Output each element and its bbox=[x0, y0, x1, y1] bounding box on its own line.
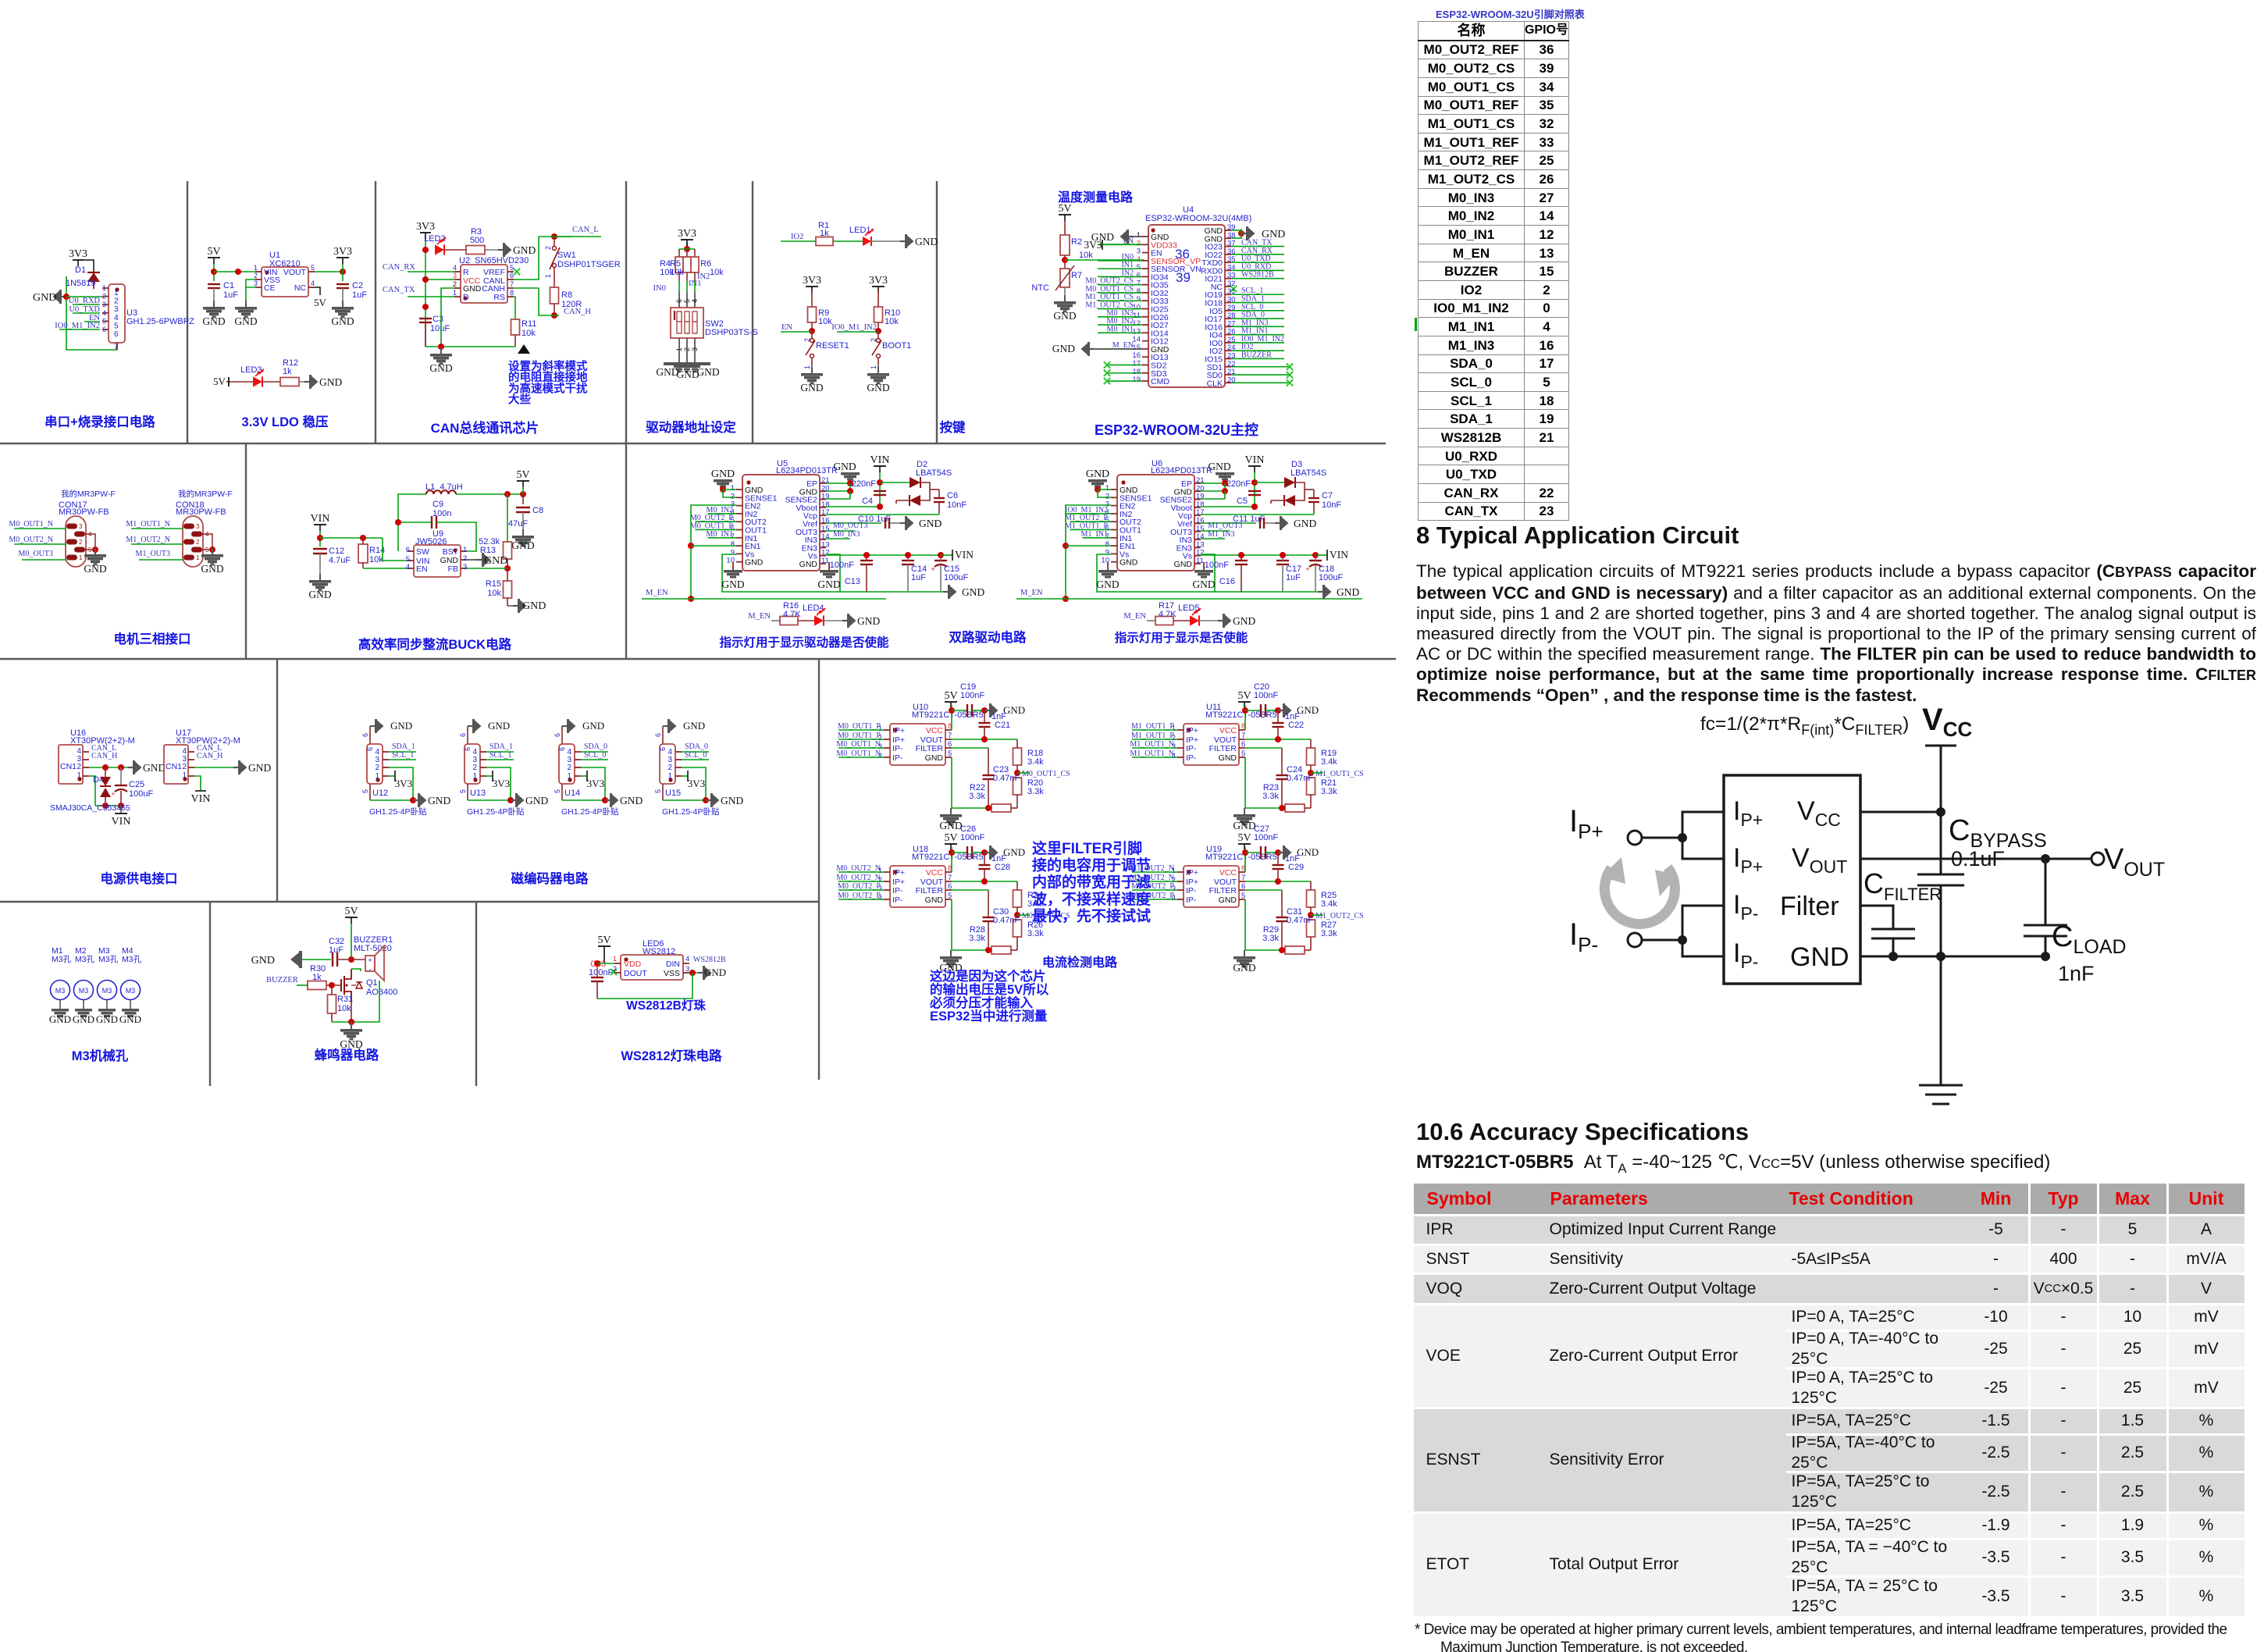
svg-text:GND: GND bbox=[73, 1013, 94, 1025]
svg-text:GND: GND bbox=[1219, 895, 1237, 905]
svg-text:NTC: NTC bbox=[1031, 283, 1049, 293]
Vs loop bbox=[722, 554, 840, 592]
ground bbox=[1241, 233, 1247, 234]
svg-text:GND: GND bbox=[704, 967, 726, 978]
svg-text:1: 1 bbox=[675, 347, 683, 351]
ground bbox=[342, 301, 344, 307]
power 5V bbox=[598, 945, 610, 947]
capacitor C2 1uF bbox=[342, 272, 344, 281]
svg-text:1: 1 bbox=[79, 554, 83, 561]
capacitor C23 0.47nF bbox=[952, 747, 988, 749]
svg-text:36: 36 bbox=[1175, 247, 1190, 262]
svg-text:3.4k: 3.4k bbox=[1027, 757, 1044, 767]
pin2 wire bbox=[486, 767, 511, 800]
svg-text:M3: M3 bbox=[126, 987, 136, 995]
bottom gnd bbox=[561, 784, 563, 800]
svg-text:接的电容用于调节: 接的电容用于调节 bbox=[1032, 856, 1151, 874]
capacitor C17 1uF bbox=[1276, 560, 1289, 561]
svg-text:VDD: VDD bbox=[624, 960, 642, 969]
svg-text:C22: C22 bbox=[1288, 721, 1304, 730]
resistors R4 R5 R6 bbox=[684, 246, 690, 252]
svg-text:3.3k: 3.3k bbox=[1027, 929, 1044, 938]
svg-text:C29: C29 bbox=[1288, 863, 1304, 872]
svg-text:DIN: DIN bbox=[666, 960, 680, 969]
svg-text:2: 2 bbox=[567, 764, 571, 772]
svg-text:220nF: 220nF bbox=[852, 479, 876, 489]
svg-text:0.47nF: 0.47nF bbox=[993, 916, 1020, 925]
bottom wires bbox=[951, 899, 952, 950]
svg-text:3: 3 bbox=[79, 523, 83, 530]
EN wires bbox=[1066, 505, 1111, 599]
svg-text:驱动器地址设定: 驱动器地址设定 bbox=[646, 419, 736, 435]
capacitor C3 10uF bbox=[422, 304, 429, 310]
EN wires bbox=[691, 505, 736, 599]
svg-text:R15: R15 bbox=[486, 579, 501, 589]
svg-text:GH1.25-4P卧贴: GH1.25-4P卧贴 bbox=[662, 806, 720, 817]
svg-text:4.7K: 4.7K bbox=[1159, 610, 1176, 619]
svg-text:GH1.25-4P卧贴: GH1.25-4P卧贴 bbox=[561, 806, 619, 817]
svg-text:EN: EN bbox=[781, 323, 792, 332]
svg-text:1: 1 bbox=[254, 264, 258, 272]
power 5V bbox=[1238, 701, 1251, 703]
svg-text:GND: GND bbox=[745, 558, 764, 568]
svg-text:3V3: 3V3 bbox=[587, 778, 604, 789]
svg-text:3.3k: 3.3k bbox=[1027, 787, 1044, 796]
svg-text:IO0_M1_IN2: IO0_M1_IN2 bbox=[831, 323, 877, 332]
svg-text:M_EN: M_EN bbox=[1123, 612, 1146, 621]
bottom wires bbox=[1244, 899, 1246, 950]
svg-text:3.3k: 3.3k bbox=[1321, 787, 1337, 796]
svg-text:GND: GND bbox=[1233, 820, 1255, 831]
wire VSS loop bbox=[246, 279, 255, 287]
svg-text:VCC: VCC bbox=[1219, 726, 1237, 735]
resistor R18 3.4k bbox=[1013, 748, 1022, 765]
svg-text:GND: GND bbox=[251, 955, 275, 967]
capacitor C32 bbox=[332, 952, 333, 967]
capacitor C24 0.47nF bbox=[1245, 747, 1282, 749]
svg-text:6: 6 bbox=[948, 740, 952, 749]
VOUT wire bbox=[952, 881, 1017, 882]
ground bbox=[1089, 348, 1095, 350]
svg-text:5: 5 bbox=[102, 317, 106, 325]
ground bbox=[1278, 852, 1283, 853]
svg-text:GND: GND bbox=[1790, 942, 1849, 972]
svg-text:5: 5 bbox=[683, 299, 691, 303]
ground x3 bbox=[678, 338, 680, 362]
svg-text:2: 2 bbox=[114, 297, 119, 306]
svg-text:GND: GND bbox=[525, 795, 548, 806]
wire bbox=[66, 276, 117, 350]
svg-text:GND: GND bbox=[1174, 560, 1193, 569]
svg-text:GND: GND bbox=[1192, 579, 1215, 590]
green tick bbox=[1415, 318, 1417, 331]
gnd wire bbox=[89, 767, 128, 768]
svg-text:4: 4 bbox=[406, 563, 410, 571]
svg-text:C25: C25 bbox=[129, 780, 144, 789]
svg-text:5V: 5V bbox=[944, 690, 957, 702]
ground bbox=[984, 852, 990, 853]
svg-text:CFILTER: CFILTER bbox=[1864, 867, 1942, 904]
svg-text:2: 2 bbox=[196, 539, 200, 546]
svg-text:MLT-5020: MLT-5020 bbox=[354, 944, 392, 953]
svg-text:ESP32-WROOM-32U(4MB): ESP32-WROOM-32U(4MB) bbox=[1145, 214, 1251, 223]
svg-text:1: 1 bbox=[453, 289, 457, 297]
svg-text:FILTER: FILTER bbox=[1209, 744, 1237, 753]
svg-text:6: 6 bbox=[366, 747, 374, 751]
bottom gnd bbox=[467, 784, 468, 800]
power 5V bbox=[208, 257, 220, 258]
svg-text:IP+: IP+ bbox=[1186, 868, 1198, 878]
svg-text:1: 1 bbox=[870, 365, 877, 369]
thermistor R7 NTC bbox=[1060, 269, 1070, 287]
svg-text:5: 5 bbox=[361, 789, 369, 793]
svg-text:GND: GND bbox=[1219, 753, 1237, 763]
svg-text:LBAT54S: LBAT54S bbox=[1290, 468, 1326, 478]
svg-text:BOOT1: BOOT1 bbox=[882, 341, 911, 351]
svg-text:10nF: 10nF bbox=[947, 500, 966, 510]
svg-text:100nF: 100nF bbox=[1254, 691, 1278, 700]
svg-text:+: + bbox=[1305, 565, 1309, 573]
svg-text:100nF: 100nF bbox=[960, 833, 984, 842]
svg-text:IP-: IP- bbox=[1186, 895, 1197, 905]
bottom wires bbox=[1244, 757, 1246, 808]
pin1 3V3 bbox=[486, 775, 493, 777]
svg-text:6: 6 bbox=[558, 747, 566, 751]
svg-text:1: 1 bbox=[114, 289, 119, 297]
svg-text:1: 1 bbox=[463, 546, 467, 554]
svg-text:GND: GND bbox=[33, 292, 56, 304]
svg-text:M1_OUT3: M1_OUT3 bbox=[136, 550, 170, 558]
svg-text:3.3k: 3.3k bbox=[1321, 929, 1337, 938]
X mark VREF bbox=[514, 269, 520, 275]
cload branch bbox=[2045, 859, 2047, 956]
svg-text:VIN: VIN bbox=[1245, 454, 1265, 466]
svg-text:GND: GND bbox=[1297, 704, 1319, 716]
pin1 3V3 bbox=[581, 775, 587, 777]
svg-text:电流检测电路: 电流检测电路 bbox=[1042, 955, 1118, 970]
svg-text:BUZZER: BUZZER bbox=[266, 976, 298, 984]
svg-text:M1_OUT2_CS: M1_OUT2_CS bbox=[1315, 912, 1364, 920]
ground bbox=[984, 710, 990, 711]
svg-text:GND: GND bbox=[721, 579, 744, 590]
svg-text:GND: GND bbox=[711, 468, 735, 480]
svg-text:LBAT54S: LBAT54S bbox=[916, 468, 952, 478]
Vs loop bbox=[1097, 554, 1215, 592]
power 5V bbox=[517, 480, 529, 482]
cbypass cap bbox=[1917, 874, 1964, 885]
svg-text:3: 3 bbox=[196, 523, 200, 530]
svg-text:GND: GND bbox=[696, 366, 719, 378]
svg-text:必须分压才能输入: 必须分压才能输入 bbox=[929, 995, 1034, 1010]
svg-text:5: 5 bbox=[311, 264, 315, 272]
led LED3 bbox=[253, 376, 262, 386]
svg-text:1nF: 1nF bbox=[2058, 962, 2095, 985]
svg-text:2: 2 bbox=[870, 338, 877, 342]
capacitor C15 100uF bbox=[934, 560, 947, 561]
svg-text:FILTER: FILTER bbox=[1209, 886, 1237, 895]
power 3V3 bbox=[681, 239, 693, 240]
svg-text:IP-: IP- bbox=[1186, 886, 1197, 895]
wire Vcp bbox=[826, 514, 939, 515]
svg-text:IP-: IP- bbox=[892, 744, 903, 753]
svg-text:GND: GND bbox=[1120, 558, 1138, 568]
svg-text:5: 5 bbox=[510, 264, 514, 272]
svg-text:7: 7 bbox=[948, 732, 952, 740]
svg-text:GND: GND bbox=[925, 895, 944, 905]
svg-text:3: 3 bbox=[254, 279, 258, 287]
svg-text:NC: NC bbox=[294, 283, 307, 293]
svg-text:3.3k: 3.3k bbox=[1262, 934, 1279, 943]
svg-text:5V: 5V bbox=[344, 906, 358, 917]
gnd symbol bbox=[1940, 1015, 1942, 1085]
svg-text:CLOAD: CLOAD bbox=[2052, 920, 2127, 958]
annotation arrow bbox=[518, 344, 530, 354]
svg-text:4: 4 bbox=[114, 314, 119, 322]
svg-text:GND: GND bbox=[800, 382, 823, 393]
svg-text:10k: 10k bbox=[1079, 251, 1093, 260]
ground bbox=[706, 799, 711, 801]
svg-text:6: 6 bbox=[1241, 882, 1245, 891]
svg-text:D1: D1 bbox=[75, 265, 86, 275]
svg-text:11: 11 bbox=[1196, 557, 1204, 565]
svg-text:FILTER: FILTER bbox=[916, 744, 944, 753]
svg-text:Filter: Filter bbox=[1780, 892, 1839, 921]
svg-text:5V: 5V bbox=[314, 297, 327, 308]
svg-text:3V3: 3V3 bbox=[493, 778, 510, 789]
svg-text:2: 2 bbox=[453, 280, 457, 288]
svg-text:1: 1 bbox=[544, 274, 552, 278]
svg-text:CN1: CN1 bbox=[166, 762, 182, 771]
svg-text:双路驱动电路: 双路驱动电路 bbox=[949, 629, 1027, 645]
svg-text:RESET1: RESET1 bbox=[816, 341, 849, 351]
svg-text:CE: CE bbox=[264, 283, 276, 293]
ground bbox=[900, 240, 906, 242]
ground bbox=[842, 620, 848, 621]
svg-text:VIN: VIN bbox=[311, 513, 330, 525]
svg-text:这里FILTER引脚: 这里FILTER引脚 bbox=[1032, 839, 1142, 857]
svg-text:2: 2 bbox=[79, 539, 83, 546]
svg-text:10k: 10k bbox=[670, 268, 684, 277]
svg-text:C16: C16 bbox=[1219, 577, 1235, 586]
connector U13 GH1.25-4P bbox=[467, 726, 468, 744]
svg-text:CAN_TX: CAN_TX bbox=[383, 286, 415, 294]
svg-text:M0_OUT2_N: M0_OUT2_N bbox=[9, 536, 53, 544]
pin1 3V3 bbox=[682, 775, 688, 777]
svg-text:11: 11 bbox=[821, 557, 829, 565]
svg-text:IP+: IP+ bbox=[892, 868, 905, 878]
vout wire bbox=[1860, 858, 2092, 860]
svg-text:1: 1 bbox=[196, 554, 200, 561]
wire FB bbox=[467, 568, 507, 569]
svg-text:我的MR3PW-F: 我的MR3PW-F bbox=[61, 489, 116, 499]
svg-text:WS2812B: WS2812B bbox=[693, 956, 726, 964]
node CAN_H bbox=[551, 312, 557, 319]
svg-text:GND: GND bbox=[1052, 343, 1075, 354]
svg-text:VOUT: VOUT bbox=[283, 268, 307, 277]
capacitor C31 0.47nF bbox=[1245, 889, 1282, 891]
svg-text:VCC: VCC bbox=[1922, 703, 1972, 741]
svg-text:fc=1/(2*π*RF(int)*CFILTER): fc=1/(2*π*RF(int)*CFILTER) bbox=[1700, 714, 1909, 738]
svg-text:7: 7 bbox=[510, 280, 514, 288]
svg-text:2: 2 bbox=[182, 763, 187, 771]
svg-text:1N5819: 1N5819 bbox=[66, 279, 96, 288]
svg-text:6: 6 bbox=[675, 299, 683, 303]
pin mapping table bbox=[1418, 21, 1569, 521]
ground bbox=[900, 522, 906, 524]
svg-text:GND: GND bbox=[49, 1013, 71, 1025]
svg-text:0.1uF: 0.1uF bbox=[1951, 847, 2005, 871]
wire VOUT bbox=[315, 271, 343, 272]
svg-text:GND: GND bbox=[1208, 461, 1230, 472]
svg-text:IP-: IP- bbox=[892, 886, 903, 895]
ground bbox=[477, 559, 482, 561]
svg-text:ESP32-WROOM-32U主控: ESP32-WROOM-32U主控 bbox=[1095, 422, 1258, 438]
svg-text:6: 6 bbox=[459, 733, 467, 737]
svg-text:10uF: 10uF bbox=[430, 324, 450, 333]
svg-text:1uF: 1uF bbox=[1286, 573, 1301, 582]
ground bbox=[1244, 808, 1245, 814]
svg-text:5: 5 bbox=[1241, 892, 1245, 900]
svg-text:2: 2 bbox=[803, 338, 811, 342]
capacitor C18 100uF bbox=[1309, 560, 1322, 561]
resistor R19 3.4k bbox=[1307, 748, 1315, 765]
vcc pin wire bbox=[1860, 811, 1941, 814]
ground bbox=[498, 249, 504, 251]
svg-text:0.47nF: 0.47nF bbox=[1287, 774, 1314, 783]
table title bbox=[1436, 6, 1585, 21]
wires to U9 bbox=[383, 538, 408, 561]
ground bbox=[1278, 710, 1283, 711]
power VIN bbox=[1248, 465, 1261, 467]
svg-text:100nF: 100nF bbox=[960, 691, 984, 700]
svg-text:C13: C13 bbox=[845, 577, 860, 586]
wire Vref bbox=[1201, 522, 1256, 524]
circular arrow bbox=[1604, 867, 1675, 924]
svg-text:DOUT: DOUT bbox=[624, 969, 647, 978]
svg-text:10nF: 10nF bbox=[1322, 500, 1341, 510]
svg-text:1k: 1k bbox=[283, 367, 292, 376]
svg-text:GND: GND bbox=[511, 539, 534, 551]
svg-text:GND: GND bbox=[1294, 518, 1316, 529]
svg-text:1uF: 1uF bbox=[911, 573, 926, 582]
svg-text:C21: C21 bbox=[995, 721, 1010, 730]
bottom wires bbox=[951, 757, 952, 808]
svg-text:3V3: 3V3 bbox=[678, 228, 696, 240]
svg-text:3V3: 3V3 bbox=[333, 246, 352, 258]
svg-text:WS2812B: WS2812B bbox=[1241, 271, 1274, 279]
svg-text:1: 1 bbox=[613, 955, 617, 963]
ground bbox=[128, 767, 133, 768]
svg-text:WS2812B灯珠: WS2812B灯珠 bbox=[626, 998, 706, 1013]
svg-text:6: 6 bbox=[464, 747, 472, 751]
ground bbox=[950, 808, 952, 814]
svg-text:4.7uF: 4.7uF bbox=[329, 556, 351, 565]
svg-text:DSHP03TS-S: DSHP03TS-S bbox=[705, 328, 758, 337]
svg-text:M3孔: M3孔 bbox=[52, 954, 72, 964]
svg-text:IP-: IP- bbox=[1733, 890, 1758, 924]
svg-text:IP+: IP+ bbox=[1569, 804, 1604, 843]
svg-text:CN1: CN1 bbox=[60, 762, 77, 771]
filter wire bbox=[1860, 906, 1893, 929]
capacitor C6 10nF bbox=[934, 497, 945, 499]
VOUT wire bbox=[1245, 739, 1311, 740]
svg-text:BUZZER: BUZZER bbox=[1241, 351, 1272, 359]
svg-text:3V3: 3V3 bbox=[869, 275, 888, 287]
svg-text:FB: FB bbox=[448, 564, 458, 574]
svg-text:10k: 10k bbox=[369, 555, 383, 564]
svg-text:GH1.25-4P卧贴: GH1.25-4P卧贴 bbox=[369, 806, 427, 817]
svg-text:GND: GND bbox=[428, 795, 450, 806]
svg-text:10k: 10k bbox=[522, 329, 536, 338]
svg-text:ESP32当中进行测量: ESP32当中进行测量 bbox=[930, 1008, 1048, 1024]
svg-text:6: 6 bbox=[659, 747, 667, 751]
svg-text:大些: 大些 bbox=[508, 393, 531, 407]
svg-text:IP-: IP- bbox=[1569, 917, 1598, 956]
svg-text:C12: C12 bbox=[329, 547, 344, 556]
wire NC to 5V bbox=[315, 287, 320, 295]
buzzer speaker bbox=[351, 959, 365, 960]
svg-text:5V: 5V bbox=[1237, 690, 1251, 702]
svg-text:的输出电压是5V所以: 的输出电压是5V所以 bbox=[930, 981, 1049, 997]
svg-text:10k: 10k bbox=[885, 317, 899, 326]
svg-text:M_EN: M_EN bbox=[646, 589, 668, 597]
svg-text:5V: 5V bbox=[944, 832, 957, 844]
svg-text:最快，先不接试试: 最快，先不接试试 bbox=[1032, 906, 1151, 924]
ground bbox=[351, 1023, 352, 1029]
svg-text:SW: SW bbox=[416, 547, 429, 557]
svg-text:5V: 5V bbox=[207, 246, 220, 258]
svg-text:1: 1 bbox=[567, 772, 571, 781]
power 5V bbox=[945, 701, 957, 703]
power 5V bbox=[345, 917, 358, 918]
svg-text:3: 3 bbox=[102, 301, 106, 308]
svg-text:AO3400: AO3400 bbox=[366, 988, 397, 997]
svg-text:2: 2 bbox=[375, 764, 379, 772]
svg-text:IP+: IP+ bbox=[892, 726, 905, 735]
svg-text:3V3: 3V3 bbox=[803, 275, 821, 287]
ground bbox=[877, 367, 879, 373]
connector U14 GH1.25-4P bbox=[561, 726, 563, 744]
svg-text:SDA_0: SDA_0 bbox=[584, 742, 607, 751]
svg-text:5: 5 bbox=[459, 789, 467, 793]
ground bbox=[94, 548, 96, 554]
ground bbox=[304, 381, 310, 383]
svg-text:6: 6 bbox=[948, 882, 952, 891]
svg-text:GND: GND bbox=[867, 382, 889, 393]
bottom gnd bbox=[662, 784, 664, 800]
capacitor C8 47uF bbox=[522, 494, 524, 504]
svg-text:5V: 5V bbox=[1237, 832, 1251, 844]
svg-text:GND: GND bbox=[1003, 704, 1025, 716]
wire vin row bbox=[320, 537, 383, 539]
svg-text:电机三相接口: 电机三相接口 bbox=[114, 631, 191, 646]
svg-text:M0_OUT1_N: M0_OUT1_N bbox=[9, 520, 53, 529]
svg-text:4.7K: 4.7K bbox=[783, 610, 801, 619]
svg-text:SW1: SW1 bbox=[557, 251, 576, 260]
svg-text:2: 2 bbox=[683, 347, 691, 351]
svg-text:IP+: IP+ bbox=[1733, 843, 1763, 877]
wire partition lines bbox=[0, 443, 1386, 444]
svg-text:M0_OUT1_CS: M0_OUT1_CS bbox=[1022, 770, 1070, 778]
svg-text:R8: R8 bbox=[561, 290, 572, 300]
svg-text:1uF: 1uF bbox=[329, 945, 344, 955]
wire Vs row bbox=[826, 554, 942, 556]
svg-text:1uF: 1uF bbox=[352, 290, 367, 300]
svg-text:GND: GND bbox=[683, 720, 705, 732]
ground bbox=[245, 301, 247, 307]
svg-text:6: 6 bbox=[114, 330, 119, 339]
svg-text:GND: GND bbox=[84, 563, 106, 575]
